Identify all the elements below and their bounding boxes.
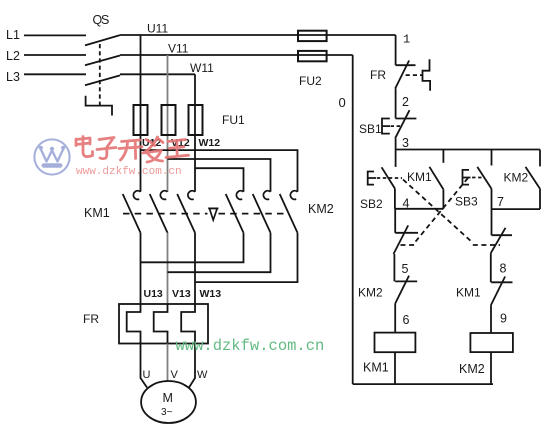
wire V13 column <box>167 233 169 304</box>
contactor KM1 main contact 2 <box>150 191 168 233</box>
svg-text:W12: W12 <box>199 137 221 149</box>
motor M <box>141 381 196 423</box>
svg-text:KM2: KM2 <box>308 202 334 216</box>
svg-text:U: U <box>143 369 151 381</box>
button SB3 actuator <box>463 170 471 185</box>
contactor KM2 aux contact <box>526 150 541 210</box>
svg-text:KM1: KM1 <box>363 361 389 375</box>
svg-text:6: 6 <box>403 313 410 327</box>
contactor KM2 NC interlock <box>395 276 417 333</box>
svg-text:W11: W11 <box>190 61 214 75</box>
button SB1 link dashes <box>391 125 400 127</box>
svg-text:W13: W13 <box>200 288 222 300</box>
svg-text:FU2: FU2 <box>299 74 322 88</box>
switch QS blade 1 <box>85 35 120 45</box>
wire node7 bus <box>492 208 541 210</box>
wire O rail <box>352 55 354 384</box>
wire node 3 <box>395 138 397 149</box>
coil KM1 <box>375 333 416 385</box>
svg-text:KM1: KM1 <box>456 286 481 300</box>
svg-text:8: 8 <box>500 262 507 276</box>
relay FR NC contact <box>395 61 415 89</box>
svg-text:KM1: KM1 <box>407 170 432 184</box>
button SB1 NC contact <box>395 110 416 138</box>
button SB3 NO contact <box>477 167 491 189</box>
wire L1 <box>24 34 86 36</box>
svg-text:7: 7 <box>497 195 504 209</box>
wire motor lead W <box>189 344 195 388</box>
interlock dash SB3 to left <box>401 178 469 245</box>
wire L2 <box>24 54 86 56</box>
wire motor lead V <box>167 344 169 382</box>
wire U12 column <box>140 35 142 192</box>
contactor KM1 main contact 3 <box>177 191 195 233</box>
button SB1 actuator <box>382 119 390 134</box>
wire W12 column <box>194 74 196 192</box>
button SB2 NO contact <box>382 167 395 188</box>
wire U11 <box>120 34 396 36</box>
svg-text:SB1: SB1 <box>359 122 382 136</box>
svg-text:KM2: KM2 <box>459 362 485 376</box>
relay FR link dashes <box>406 74 422 76</box>
fuse FU2 element 2 <box>298 51 327 61</box>
svg-text:V13: V13 <box>172 288 191 300</box>
wire SB2 to node4 <box>394 189 396 209</box>
svg-text:1: 1 <box>403 33 410 47</box>
linkage triangle <box>208 208 218 220</box>
svg-text:L1: L1 <box>6 28 20 42</box>
button SB2 branch wire <box>395 150 397 167</box>
svg-text:FU1: FU1 <box>222 113 245 127</box>
contactor KM2 main contact 2 <box>253 191 271 233</box>
svg-text:9: 9 <box>500 312 507 326</box>
button SB3 link dashes <box>472 177 482 179</box>
wire SB3 to node7 <box>491 189 493 209</box>
wire KM2 out 3 <box>195 233 298 282</box>
contactor KM1 NC interlock <box>491 277 513 334</box>
relay FR box <box>119 304 208 344</box>
svg-text:QS: QS <box>93 13 110 27</box>
fuse FU2 element 1 <box>298 31 327 41</box>
wire W11 <box>120 73 195 75</box>
watermark chinese text <box>76 137 189 163</box>
linkage dashes KM1 KM2 <box>123 213 287 215</box>
contactor KM2 main contact 3 <box>280 191 298 233</box>
svg-text:KM2: KM2 <box>504 171 529 185</box>
wire V12 column <box>167 55 169 192</box>
svg-text:U13: U13 <box>144 288 163 300</box>
relay FR heater 3 <box>181 304 195 344</box>
contactor KM1 aux contact <box>429 150 443 209</box>
watermark logo W <box>34 139 69 174</box>
svg-text:KM2: KM2 <box>358 286 383 300</box>
interlock dash SB2 to right <box>403 180 500 246</box>
contactor KM1 main contact 1 <box>123 191 141 233</box>
wire branch W12 to KM2 <box>195 168 244 192</box>
wire motor lead U <box>141 344 148 388</box>
svg-text:U11: U11 <box>147 22 168 36</box>
wire branch V12 to KM2 <box>168 159 271 192</box>
relay FR actuator <box>423 59 431 91</box>
button SB3 branch wire <box>491 150 493 166</box>
svg-text:FR: FR <box>83 312 99 326</box>
wire bottom rail <box>353 383 493 385</box>
fuse FU1 element 3 <box>189 105 203 135</box>
svg-text:V11: V11 <box>168 42 189 56</box>
fuse FU1 element 2 <box>162 105 176 135</box>
wire U13 column <box>140 233 142 304</box>
svg-text:L2: L2 <box>6 49 20 63</box>
coil KM2 <box>470 333 513 384</box>
svg-text:V: V <box>171 369 179 381</box>
contactor KM2 main contact 1 <box>226 191 244 233</box>
wire node3 bus <box>396 149 540 151</box>
svg-text:M: M <box>163 391 173 405</box>
svg-text:www.dzkfw.com.cn: www.dzkfw.com.cn <box>176 337 325 355</box>
switch QS blade 2 <box>85 56 120 66</box>
svg-text:SB2: SB2 <box>360 197 383 211</box>
svg-text:SB3: SB3 <box>455 195 478 209</box>
svg-text:3~: 3~ <box>161 407 173 418</box>
wire node 1 <box>395 35 397 65</box>
wire node4 bus <box>395 208 444 210</box>
wire V11 <box>120 54 353 56</box>
wire branch U12 to KM2 <box>141 150 298 192</box>
switch QS blade 3 <box>85 75 120 85</box>
wire node 2 <box>395 89 397 119</box>
switch QS handle <box>86 96 112 116</box>
relay FR heater 1 <box>127 304 141 344</box>
wire W13 column <box>194 233 196 304</box>
svg-text:0: 0 <box>339 95 346 110</box>
wire KM2 out 2 <box>168 233 271 273</box>
svg-text:2: 2 <box>402 95 409 109</box>
wire KM2 out 1 <box>141 233 244 263</box>
fuse FU1 element 1 <box>134 105 148 135</box>
button SB2 link dashes <box>377 177 402 179</box>
svg-text:www.dzkfw.com.cn: www.dzkfw.com.cn <box>76 166 182 178</box>
button SB2 NC contact right branch <box>491 209 512 282</box>
svg-text:W: W <box>197 369 208 381</box>
svg-text:L3: L3 <box>6 70 20 84</box>
relay FR heater 2 <box>154 304 168 344</box>
svg-text:5: 5 <box>402 262 409 276</box>
button SB3 NC contact left branch <box>394 209 419 282</box>
switch QS linkage <box>99 44 101 106</box>
wire L3 <box>24 73 86 75</box>
svg-text:KM1: KM1 <box>84 206 110 220</box>
svg-text:3: 3 <box>402 136 409 150</box>
button SB2 actuator <box>368 172 376 185</box>
svg-text:FR: FR <box>370 68 386 82</box>
